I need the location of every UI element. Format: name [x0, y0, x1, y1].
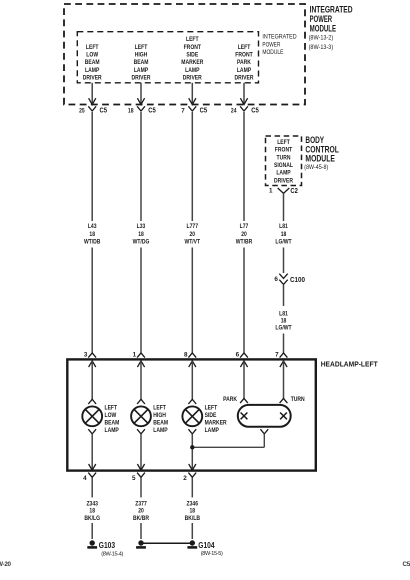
headlamp connector pin 3 [84, 352, 96, 368]
svg-text:18: 18 [281, 318, 287, 325]
svg-text:LEFT: LEFT [135, 44, 148, 51]
svg-text:HIGH: HIGH [135, 52, 148, 59]
oval output caret [260, 429, 268, 434]
svg-text:BEAM: BEAM [153, 420, 168, 427]
wire into left side marker lamp [191, 361, 193, 400]
wire from driver 3 to C5 [191, 83, 193, 104]
wire from lamp to bottom pin 2 [191, 434, 193, 470]
svg-text:20: 20 [190, 231, 196, 238]
park/turn combination bulb oval [238, 405, 291, 427]
wire segment above label Z346 [191, 478, 193, 498]
svg-text:TURN: TURN [291, 396, 305, 403]
headlamp bottom connector pin 4 [83, 464, 96, 482]
left low beam lamp label [105, 405, 120, 435]
svg-text:18: 18 [138, 231, 144, 238]
svg-text:LEFT: LEFT [86, 44, 99, 51]
svg-text:DRIVER: DRIVER [274, 177, 293, 184]
svg-text:6: 6 [236, 352, 240, 359]
svg-text:2: 2 [183, 475, 187, 482]
svg-text:LAMP: LAMP [237, 67, 251, 74]
svg-text:LEFT: LEFT [205, 405, 218, 412]
headlamp bottom connector pin 2 [183, 464, 196, 482]
wire segment below label L77 [243, 248, 245, 353]
wire segment above label L777 [191, 112, 193, 221]
svg-text:INTEGRATED: INTEGRATED [262, 34, 296, 41]
left front turn signal lamp driver label [274, 139, 293, 184]
svg-text:LAMP: LAMP [105, 427, 119, 434]
svg-text:C2: C2 [290, 186, 298, 195]
wire label Z343 18 BK/LG [84, 500, 100, 522]
svg-text:DRIVER: DRIVER [183, 75, 202, 82]
svg-text:25: 25 [79, 107, 85, 114]
svg-text:L77: L77 [240, 223, 249, 230]
left front park lamp driver label [235, 44, 254, 82]
svg-text:WT/BR: WT/BR [236, 239, 253, 246]
svg-text:L43: L43 [88, 223, 97, 230]
integrated power module inner label [262, 34, 296, 57]
wire from driver 4 to C5 [243, 83, 245, 104]
svg-text:WT/DG: WT/DG [133, 239, 150, 246]
svg-text:LEFT: LEFT [238, 44, 251, 51]
connector C5 pin 24 [231, 98, 259, 114]
svg-text:1: 1 [269, 187, 273, 194]
svg-text:SIGNAL: SIGNAL [274, 162, 293, 169]
svg-text:LEFT: LEFT [105, 405, 118, 412]
svg-text:POWER: POWER [310, 14, 333, 24]
svg-text:FRONT: FRONT [235, 52, 253, 59]
wire into left high beam lamp [140, 361, 142, 400]
wire segment above label Z343 [91, 478, 93, 498]
ground symbol at Z377 [138, 540, 143, 545]
ground bus between G104 legs [141, 542, 192, 544]
svg-text:(8W-13-3): (8W-13-3) [309, 44, 334, 51]
wire segment above label L33 [140, 112, 142, 221]
svg-text:LOW: LOW [105, 412, 117, 419]
wire from driver 1 to C5 [91, 83, 93, 104]
headlamp connector pin 1 [133, 352, 145, 368]
svg-text:MARKER: MARKER [205, 420, 227, 427]
svg-text:LAMP: LAMP [134, 67, 148, 74]
svg-text:7: 7 [181, 107, 185, 114]
svg-text:6: 6 [274, 276, 278, 283]
wire segment below label L33 [140, 248, 142, 353]
wire label L33 18 WT/DG [133, 223, 150, 245]
svg-text:LG/WT: LG/WT [275, 325, 291, 332]
svg-text:W-20: W-20 [0, 561, 12, 568]
ground G104 [187, 540, 222, 557]
headlamp connector pin 7 [275, 352, 287, 368]
svg-text:INTEGRATED: INTEGRATED [310, 4, 353, 14]
inner dashed driver box [77, 32, 258, 83]
svg-text:18: 18 [89, 231, 95, 238]
svg-text:G103: G103 [99, 540, 115, 550]
left low beam lamp driver label [83, 44, 102, 82]
svg-text:MARKER: MARKER [181, 59, 203, 66]
svg-text:BEAM: BEAM [134, 59, 149, 66]
svg-text:C5: C5 [148, 106, 156, 115]
svg-text:LAMP: LAMP [85, 67, 99, 74]
svg-text:24: 24 [231, 107, 237, 114]
svg-text:Z343: Z343 [86, 500, 98, 507]
svg-text:LAMP: LAMP [153, 427, 167, 434]
svg-text:SIDE: SIDE [205, 412, 217, 419]
svg-text:POWER: POWER [262, 41, 280, 48]
svg-text:(8W-15-5): (8W-15-5) [201, 551, 223, 557]
svg-text:HEADLAMP-LEFT: HEADLAMP-LEFT [321, 359, 378, 368]
svg-text:PARK: PARK [223, 396, 237, 403]
wire into left low beam lamp [91, 361, 93, 400]
svg-text:LEFT: LEFT [186, 36, 199, 43]
turn terminal caret [280, 398, 288, 403]
wire from oval down [263, 434, 265, 447]
left high beam lamp bulb [131, 399, 151, 434]
svg-text:LEFT: LEFT [277, 139, 290, 146]
wire segment below label L43 [91, 248, 93, 353]
svg-text:BK/BR: BK/BR [133, 515, 149, 522]
svg-text:SIDE: SIDE [186, 52, 198, 59]
svg-text:18: 18 [190, 508, 196, 515]
svg-text:BEAM: BEAM [105, 420, 120, 427]
wire label L81 18 LG/WT (upper) [275, 223, 291, 245]
wire label Z377 20 BK/BR [133, 500, 149, 522]
svg-text:20: 20 [241, 231, 247, 238]
wire segment to headlamp pin 7 [283, 334, 285, 353]
wire from oval to marker lamp branch [192, 446, 264, 448]
wire from lamp to bottom pin 5 [140, 434, 142, 470]
park terminal caret [240, 398, 248, 403]
wire label L81 18 LG/WT (lower) [275, 310, 291, 331]
svg-text:MODULE: MODULE [262, 49, 283, 56]
svg-text:L33: L33 [137, 223, 146, 230]
wire from lamp to bottom pin 4 [91, 434, 93, 470]
svg-text:18: 18 [89, 508, 95, 515]
wire segment below label L777 [191, 248, 193, 353]
left side marker lamp label [205, 405, 227, 435]
svg-text:(8W-45-8): (8W-45-8) [304, 164, 328, 171]
svg-text:MODULE: MODULE [305, 154, 335, 164]
svg-text:L777: L777 [187, 223, 199, 230]
svg-text:MODULE: MODULE [310, 24, 337, 34]
svg-text:C5: C5 [403, 561, 410, 568]
svg-text:FRONT: FRONT [184, 44, 202, 51]
svg-text:LOW: LOW [86, 52, 98, 59]
wire from C2 down [283, 193, 285, 221]
svg-text:BEAM: BEAM [85, 59, 100, 66]
svg-text:8: 8 [184, 352, 188, 359]
wire segment below C100 [283, 285, 285, 306]
svg-text:FRONT: FRONT [275, 147, 293, 154]
svg-text:C5: C5 [200, 106, 208, 115]
headlamp bottom connector pin 5 [132, 464, 145, 482]
svg-text:C100: C100 [290, 275, 305, 284]
wire into turn terminal [283, 361, 285, 399]
svg-text:LAMP: LAMP [185, 67, 199, 74]
svg-text:Z346: Z346 [187, 500, 199, 507]
svg-text:C5: C5 [251, 106, 258, 115]
svg-text:4: 4 [83, 475, 87, 482]
junction node on marker lamp wire [190, 445, 194, 449]
wire label Z346 18 BK/LB [185, 500, 201, 522]
wire label L43 18 WT/DB [84, 223, 101, 245]
svg-text:WT/VT: WT/VT [184, 239, 200, 246]
svg-text:C5: C5 [100, 106, 108, 115]
wire from driver 2 to C5 [140, 83, 142, 104]
svg-text:HIGH: HIGH [153, 412, 166, 419]
svg-text:20: 20 [138, 508, 144, 515]
svg-text:(8W-15-4): (8W-15-4) [101, 552, 123, 558]
body control module dashed box [266, 136, 302, 186]
wire label L777 20 WT/VT [184, 223, 200, 245]
wire into park terminal [243, 361, 245, 399]
connector C5 pin 18 [128, 98, 156, 114]
svg-text:G104: G104 [198, 540, 214, 550]
left high beam lamp driver label [132, 44, 151, 82]
left side marker lamp bulb [182, 399, 202, 434]
svg-text:PARK: PARK [237, 59, 251, 66]
ground G103 [87, 540, 123, 557]
svg-text:DRIVER: DRIVER [83, 75, 102, 82]
headlamp connector pin 8 [184, 352, 196, 368]
svg-text:BK/LB: BK/LB [185, 515, 201, 522]
svg-text:LG/WT: LG/WT [275, 239, 291, 246]
svg-text:7: 7 [275, 352, 279, 359]
svg-text:L81: L81 [279, 223, 288, 230]
wire segment below label Z346 [191, 523, 193, 539]
svg-text:5: 5 [132, 475, 136, 482]
left low beam lamp bulb [82, 399, 102, 434]
svg-text:18: 18 [281, 231, 287, 238]
svg-text:18: 18 [128, 107, 134, 114]
wire label L77 20 WT/BR [236, 223, 253, 245]
headlamp connector pin 6 [236, 352, 248, 368]
svg-text:3: 3 [84, 352, 88, 359]
left high beam lamp label [153, 405, 168, 435]
integrated power module outer dashed box [64, 4, 305, 105]
svg-text:LAMP: LAMP [276, 170, 290, 177]
connector C2 pin 1 [269, 186, 298, 195]
body control module title [304, 135, 339, 171]
connector C5 pin 25 [79, 98, 107, 114]
wire segment above label Z377 [140, 478, 142, 498]
svg-text:DRIVER: DRIVER [235, 75, 254, 82]
svg-text:LAMP: LAMP [205, 427, 219, 434]
headlamp-left box [67, 359, 315, 470]
wire segment below label Z343 [91, 523, 93, 539]
wire segment to C100 [283, 248, 285, 274]
svg-text:WT/DB: WT/DB [84, 239, 101, 246]
svg-text:TURN: TURN [277, 154, 291, 161]
svg-text:LEFT: LEFT [153, 405, 166, 412]
left front side marker lamp driver label [181, 36, 203, 82]
wire segment above label L77 [243, 112, 245, 221]
svg-text:1: 1 [133, 352, 137, 359]
svg-text:Z377: Z377 [135, 500, 147, 507]
wire segment above label L43 [91, 112, 93, 221]
svg-text:L81: L81 [279, 310, 288, 317]
svg-text:BK/LG: BK/LG [84, 515, 100, 522]
wire segment below label Z377 [140, 523, 142, 539]
svg-text:(8W-13-2): (8W-13-2) [309, 35, 334, 42]
connector C100 pin 6 [274, 274, 305, 285]
integrated power module title [309, 4, 353, 51]
svg-text:DRIVER: DRIVER [132, 75, 151, 82]
connector C5 pin 7 [181, 98, 207, 114]
